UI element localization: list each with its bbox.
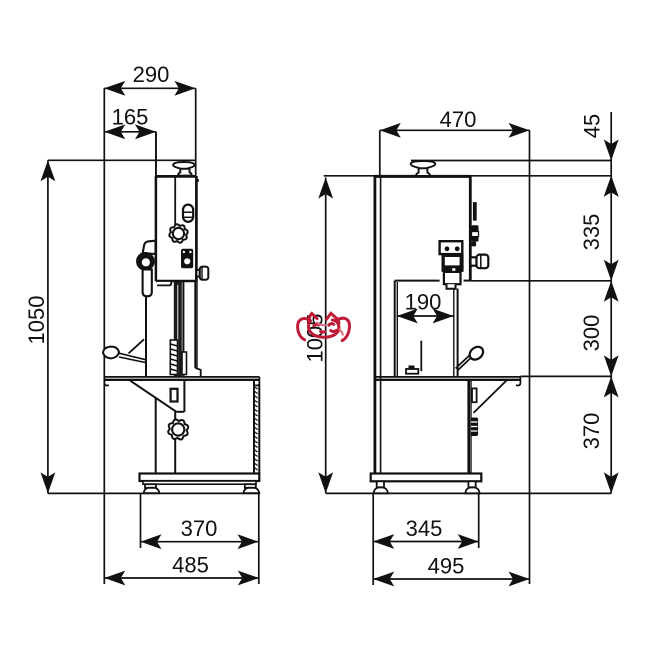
bolt knob on right edge (side view): [471, 255, 489, 269]
svg-text:290: 290: [133, 62, 170, 87]
node: dimension 290: [104, 62, 195, 176]
node: dimension 485 bottom left view: [104, 553, 258, 586]
node: dimension 45 (outside arrows): [580, 114, 619, 197]
tension lever assembly left of head: [137, 241, 155, 297]
ribbed latch stack on right edge (side view): [472, 225, 479, 246]
svg-text:190: 190: [405, 290, 442, 315]
svg-text:485: 485: [172, 553, 209, 578]
slot on cabinet edge (side view): [472, 388, 477, 402]
black hinge rect on right edge (side view): [473, 202, 477, 221]
inner vertical line of head: [174, 177, 176, 229]
node: dimension 165: [104, 105, 156, 177]
blade guard column (front view): [183, 281, 200, 377]
feet (side view): [374, 481, 480, 493]
node: dimension 345: [373, 493, 479, 585]
reference line at table level (side): [520, 375, 611, 377]
svg-text:345: 345: [406, 516, 443, 541]
knob on head top (front view): [173, 162, 194, 176]
step under head left side: [157, 281, 171, 285]
ribbed knob lower (side view): [470, 418, 478, 437]
svg-text:370: 370: [579, 413, 604, 450]
blade dark band (front view): [174, 282, 182, 377]
red doodle (cat face): [298, 313, 350, 340]
machine top reference lines (45 dim refs): [411, 160, 611, 162]
svg-text:495: 495: [428, 554, 465, 579]
node: dimension 370 bottom left view: [141, 493, 259, 584]
saw head box front view: [156, 132, 197, 281]
svg-text:335: 335: [579, 214, 604, 251]
base bracket diagonal (front view): [130, 381, 184, 474]
inner throat box (side view): [395, 281, 471, 377]
table (front view): [104, 377, 259, 386]
svg-text:300: 300: [579, 315, 604, 352]
svg-text:1050: 1050: [24, 296, 49, 345]
svg-text:470: 470: [440, 107, 477, 132]
tick on head right edge: [196, 179, 199, 181]
cabinet below table (side view): [469, 380, 508, 473]
oval handle on head: [183, 205, 193, 222]
node: dimension 1005 vertical: [302, 178, 333, 494]
svg-text:165: 165: [112, 105, 149, 130]
lever handle (side view): [456, 344, 486, 370]
svg-text:45: 45: [580, 114, 605, 138]
node: dimension 190: [397, 290, 454, 324]
wire: left extension line x=104.3 (table left edge, 290/165/485 dims): [103, 88, 105, 584]
bottom reference line right view: [326, 492, 612, 494]
wire: top reference line y=160.5 (1050 top): [48, 159, 197, 161]
feet (front view): [144, 484, 260, 493]
reference line at head bottom (side): [471, 280, 612, 282]
star knob lower (front view): [168, 420, 188, 440]
slot on bracket: [171, 389, 178, 402]
base plate (side view): [371, 474, 482, 482]
blade guard rod inside throat (side view): [406, 341, 421, 374]
blade guide assembly (side view): [440, 241, 464, 289]
right dimension column line: [610, 112, 612, 493]
node: dimension 335: [579, 176, 619, 281]
svg-text:370: 370: [181, 516, 218, 541]
star knob upper (front view): [169, 224, 187, 242]
node: dimension 370 right column: [579, 376, 619, 493]
wire: bottom reference line y=493.4 left view: [48, 492, 260, 494]
base plate (front view): [140, 474, 260, 485]
pusher handle ball and rod: [103, 339, 146, 362]
knob on body top (side view): [411, 161, 436, 176]
black latch (front view): [181, 249, 193, 268]
node: dimension 495: [373, 554, 529, 587]
node: dimension 1050 vertical: [24, 160, 55, 493]
side knob right of head (front view): [196, 267, 208, 280]
slide rod below lever: [145, 296, 147, 377]
node: dimension 470: [380, 107, 530, 584]
guard foot with spring texture: [170, 340, 186, 375]
machine body (side view): [374, 176, 471, 473]
table (side view): [374, 377, 520, 386]
node: dimension 300: [579, 281, 619, 377]
cabinet right edge with vents (front view): [254, 381, 259, 473]
